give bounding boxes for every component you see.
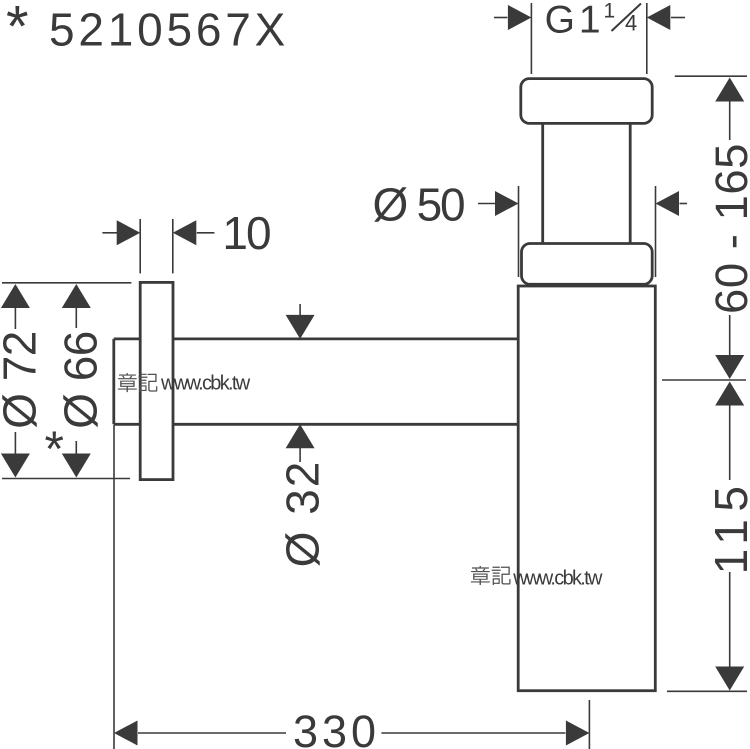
watermark 1: 章記 www.cbk.tw — [118, 373, 251, 395]
dimension 10: arrows — [102, 220, 214, 245]
svg-text:1: 1 — [604, 0, 616, 23]
svg-text:10: 10 — [222, 207, 270, 259]
Ø72/Ø66 top tick — [2, 282, 131, 284]
wall flange — [140, 282, 173, 479]
dimension 330: left extension line — [113, 425, 115, 749]
dimension Ø32: lower arrow — [286, 424, 315, 462]
Ø72/Ø66 bottom tick — [2, 478, 130, 480]
dimension Ø50: extension lines — [519, 186, 656, 277]
dimension 115: lower arrow — [715, 572, 744, 691]
top union nut G1 1/4 — [521, 79, 652, 124]
vertical inlet tube — [543, 123, 631, 243]
horizontal inlet pipe Ø32 — [114, 339, 518, 424]
dimension Ø50: arrows — [478, 191, 687, 216]
dimension G1 1/4: arrows — [494, 5, 685, 30]
shared tick between 60-165 and 115 — [662, 379, 746, 381]
dimension 115: upper arrow — [715, 382, 744, 481]
dimension 115: bottom tick — [667, 690, 747, 692]
svg-text:*: * — [45, 421, 64, 477]
svg-text:115: 115 — [705, 479, 750, 575]
dimension 330: line and arrows — [114, 721, 589, 746]
svg-text:Ø 72: Ø 72 — [0, 331, 46, 429]
svg-text:G1: G1 — [545, 0, 605, 42]
dimension 60-165: top tick — [675, 75, 747, 77]
dimension Ø32: upper arrow — [286, 304, 315, 339]
svg-text:4: 4 — [625, 11, 637, 36]
svg-text:www.cbk.tw: www.cbk.tw — [512, 567, 603, 589]
watermark 2: 章記 www.cbk.tw — [471, 566, 603, 589]
dimension Ø72: arrows — [1, 284, 30, 478]
svg-text:60 - 165: 60 - 165 — [706, 143, 750, 314]
dimension Ø66: arrows — [62, 284, 91, 478]
svg-text:Ø 66: Ø 66 — [54, 331, 106, 429]
dimension 10: extension lines — [140, 219, 173, 273]
svg-text:www.cbk.tw: www.cbk.tw — [160, 373, 251, 395]
lower union nut — [522, 244, 653, 285]
svg-text:Ø 50: Ø 50 — [373, 179, 465, 231]
trap body cup Ø50 — [518, 286, 655, 691]
svg-text:Ø 32: Ø 32 — [277, 460, 329, 568]
svg-text:* 5210567X: * 5210567X — [6, 0, 289, 60]
dimension 60-165: upper arrow — [715, 78, 744, 141]
svg-text:330: 330 — [293, 706, 380, 749]
dimension 60-165: lower arrow — [715, 315, 744, 379]
dimension 330: right extension line — [588, 700, 590, 749]
dimension G1 1/4: extension lines — [531, 3, 646, 74]
